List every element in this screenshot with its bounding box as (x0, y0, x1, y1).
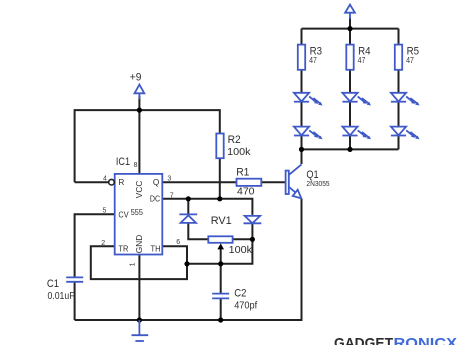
svg-text:R2: R2 (228, 134, 241, 146)
svg-text:470pf: 470pf (234, 300, 257, 312)
svg-text:IC1: IC1 (116, 156, 130, 168)
svg-text:3: 3 (167, 176, 171, 183)
svg-text:2: 2 (101, 240, 105, 247)
svg-text:TH: TH (151, 243, 161, 253)
svg-text:GADGETRONICX: GADGETRONICX (334, 335, 457, 345)
svg-text:1: 1 (130, 263, 137, 267)
svg-text:DC: DC (150, 194, 160, 204)
svg-text:47: 47 (406, 56, 414, 65)
svg-text:R1: R1 (236, 167, 249, 179)
svg-text:RV1: RV1 (211, 215, 232, 227)
svg-text:8: 8 (134, 162, 138, 169)
svg-text:R: R (118, 177, 124, 187)
svg-text:CV: CV (118, 210, 129, 220)
svg-text:GND: GND (134, 235, 144, 253)
svg-text:100k: 100k (229, 244, 253, 256)
svg-text:C2: C2 (234, 288, 246, 300)
svg-text:100k: 100k (227, 146, 251, 158)
svg-text:7: 7 (170, 192, 174, 199)
svg-text:4: 4 (103, 176, 107, 183)
svg-text:5: 5 (103, 207, 107, 214)
svg-text:0.01uF: 0.01uF (48, 290, 75, 302)
svg-text:555: 555 (131, 207, 144, 217)
svg-text:47: 47 (309, 56, 317, 65)
svg-text:TR: TR (118, 243, 128, 253)
svg-text:+9: +9 (130, 71, 142, 83)
svg-text:47: 47 (358, 56, 366, 65)
svg-text:Q: Q (153, 177, 160, 187)
svg-text:6: 6 (176, 239, 180, 246)
svg-text:VCC: VCC (134, 181, 144, 199)
svg-text:C1: C1 (47, 278, 59, 290)
svg-text:2N3055: 2N3055 (306, 179, 329, 188)
svg-text:470: 470 (237, 185, 255, 197)
